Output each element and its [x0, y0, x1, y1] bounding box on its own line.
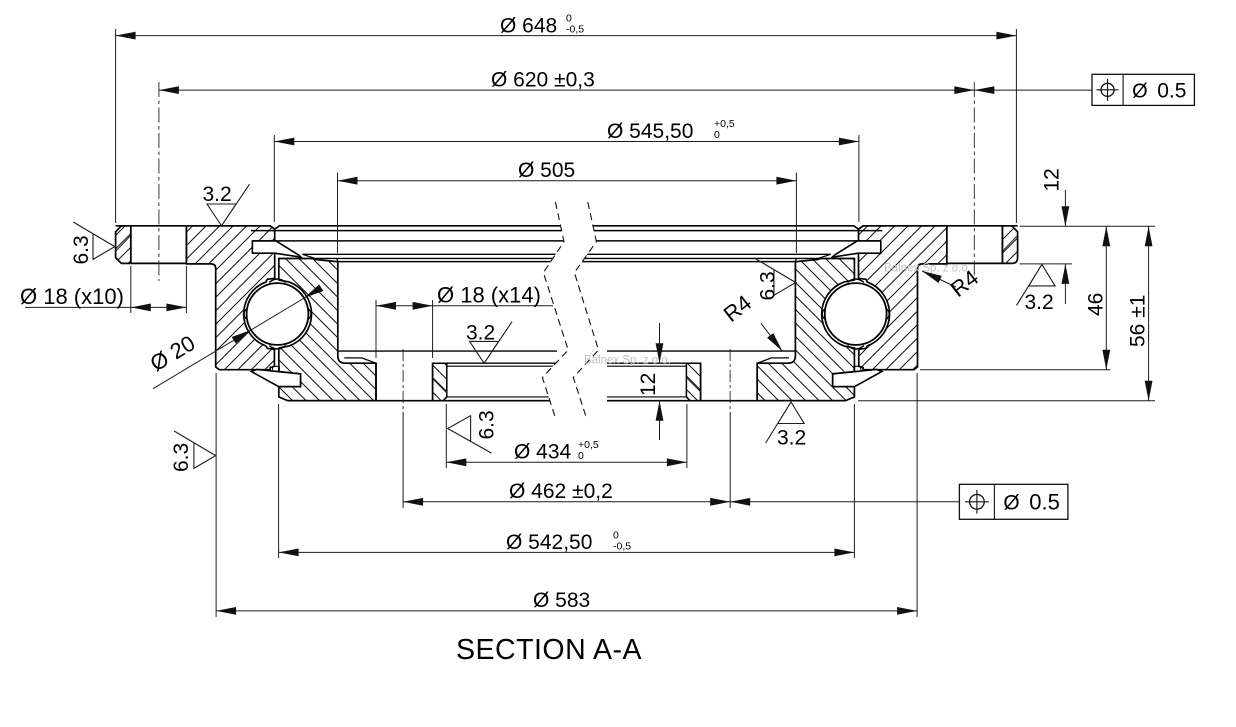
- top strip line 5: [315, 257, 818, 259]
- strip step left: [302, 254, 338, 261]
- break corridor (white-out): [542, 202, 598, 420]
- inner ring, left section (cut, hatched): [279, 259, 376, 401]
- outer ring, left section (cut, hatched): [186, 226, 274, 370]
- flange rim chamfer diagonal (right): [1002, 235, 1017, 251]
- recess background line 366 (right): [607, 365, 686, 367]
- extension line Ø505 left: [337, 173, 339, 254]
- recess face line (left): [344, 358, 376, 363]
- svg-text:3.2: 3.2: [203, 183, 232, 206]
- svg-text:6.3: 6.3: [476, 410, 499, 439]
- arrowheads Ø20: [232, 330, 251, 344]
- svg-text:Ø 434: Ø 434: [514, 441, 572, 464]
- svg-text:Ø 542,50: Ø 542,50: [506, 531, 592, 554]
- extension line Ø648 right / flange edge: [1015, 29, 1017, 223]
- leader to position frame (top): [974, 89, 1092, 91]
- dimension line 12 (top): [1064, 190, 1066, 226]
- extension line Ø434 left: [445, 404, 447, 468]
- arrowheads Ø505: [338, 177, 358, 185]
- svg-text:3.2: 3.2: [466, 321, 495, 344]
- dimension line 46: [1105, 226, 1107, 369]
- dimension line Ø505: [338, 180, 797, 182]
- svg-text:Ø 462 ±0,2: Ø 462 ±0,2: [509, 480, 613, 503]
- svg-text:Ø 545,50: Ø 545,50: [607, 120, 693, 143]
- inner ring bolt hole walls (left): [376, 363, 433, 401]
- surface finish 3.2 (outer ring top face): [207, 184, 250, 226]
- svg-text:6.3: 6.3: [757, 271, 780, 300]
- extension line outer ring bottom right: [920, 369, 1111, 371]
- dimension line Ø583: [216, 610, 917, 612]
- position tolerance frame (top right): [1092, 74, 1194, 105]
- surface finish 3.2 (inner ring bottom, right): [766, 402, 805, 443]
- svg-text:Ø 620 ±0,3: Ø 620 ±0,3: [491, 68, 595, 91]
- svg-text:0: 0: [578, 450, 584, 462]
- recess background line 366 (left): [447, 365, 557, 367]
- svg-text:3.2: 3.2: [1025, 291, 1054, 314]
- svg-text:Ø: Ø: [1003, 492, 1019, 515]
- dimension line 56: [1148, 226, 1150, 400]
- extension line Ø542,5 left: [278, 404, 280, 558]
- extension line Ø434 right: [686, 404, 688, 468]
- svg-text:0: 0: [714, 129, 720, 141]
- inner ring underside background line (right): [607, 350, 795, 352]
- dimension line 12 (bottom): [659, 323, 661, 363]
- extension line Ø542,5 right: [853, 404, 855, 558]
- arrowheads 56: [1145, 226, 1153, 246]
- top strip line 3: [252, 240, 880, 242]
- raceway ear marks (right ball): [822, 309, 889, 320]
- bottom seal lip detail (right): [854, 366, 861, 371]
- recess background line 363 (right): [607, 362, 686, 364]
- leader R4 (inner ring fillet, right): [761, 323, 783, 351]
- dimension line Ø18x10: [25, 306, 186, 308]
- recess background line 363 (left): [447, 362, 557, 364]
- extension line Ø462 left: [402, 412, 404, 508]
- bottom seal wiper (right): [833, 369, 882, 386]
- recess background line 397 (left): [447, 396, 557, 398]
- svg-text:SECTION A-A: SECTION A-A: [456, 634, 642, 666]
- arrowheads Ø18x14: [376, 302, 396, 310]
- arrowheads 46: [1102, 226, 1110, 246]
- break line (left zigzag, dashed): [542, 202, 568, 420]
- arrowheads Ø542,50: [279, 549, 299, 557]
- position tolerance frame (bottom right): [959, 484, 1068, 519]
- svg-text:-0,5: -0,5: [613, 540, 631, 552]
- outer ring, right section (cut, hatched): [859, 226, 947, 370]
- bottom seal wiper (left): [251, 369, 300, 386]
- extension line Ø505 right: [795, 173, 797, 254]
- ball, left section: [247, 283, 309, 345]
- top strip line 6 (inner ring top face): [337, 261, 797, 263]
- extension line flange bottom right: [1020, 263, 1072, 265]
- flange rim chamfer diagonal (left): [116, 235, 131, 251]
- dimension line Ø434: [446, 461, 687, 463]
- inner ring bolt hole walls (right): [701, 363, 758, 401]
- flange rim sliver right of bolt hole (right): [1002, 226, 1017, 264]
- svg-text:3.2: 3.2: [777, 427, 806, 450]
- svg-text:6.3: 6.3: [170, 443, 193, 472]
- extension line Ø583 right: [916, 373, 918, 617]
- svg-text:Ø 583: Ø 583: [533, 589, 590, 612]
- recess face line (right): [757, 358, 789, 363]
- break line (right zigzag, dashed): [573, 202, 598, 420]
- ball top contact cap (right): [848, 279, 864, 282]
- inner ring, right section (cut, hatched): [757, 259, 854, 401]
- svg-text:Balnex Sp. z o.o.: Balnex Sp. z o.o.: [584, 355, 671, 367]
- arrowheads Ø462: [403, 498, 423, 506]
- top strip line 4: [302, 253, 830, 255]
- extension line Ø462 right: [729, 412, 731, 508]
- svg-text:Ø 18 (x14): Ø 18 (x14): [437, 283, 541, 308]
- arrowheads Ø583: [216, 607, 236, 615]
- recess background line 397 (right): [607, 396, 686, 398]
- top seal wiper (left): [252, 241, 301, 257]
- arrowheads Ø434: [446, 458, 466, 466]
- ball bottom contact cap (right): [848, 346, 864, 349]
- flange underside line across hole (right): [947, 262, 1003, 264]
- dimension line Ø542,50: [279, 551, 855, 553]
- dimension line Ø18x14: [376, 305, 553, 307]
- bottom seal lip detail (left): [273, 366, 280, 371]
- svg-text:Ø 505: Ø 505: [518, 159, 575, 182]
- leader line Ø20: [153, 288, 321, 389]
- dimension line Ø462: [403, 501, 730, 503]
- top seal wiper (right): [832, 241, 881, 257]
- inner hole chamfer diag (right): [686, 378, 700, 392]
- extension line Ø545,5 right: [858, 135, 860, 222]
- dimension line Ø620: [159, 89, 974, 91]
- arrowheads Ø545,50: [274, 138, 294, 146]
- surface finish 3.2 (inner ring recess face): [470, 322, 512, 364]
- extension line Ø583 left: [215, 373, 217, 617]
- inner ring bottom face (right): [607, 400, 846, 402]
- arrowheads 12 (bottom): [656, 343, 664, 363]
- arrowheads Ø648: [116, 32, 136, 40]
- svg-text:Ø: Ø: [1132, 80, 1148, 102]
- svg-text:46: 46: [1085, 293, 1108, 316]
- raceway ear marks (left ball): [244, 309, 311, 320]
- svg-text:Ø 18 (x10): Ø 18 (x10): [20, 284, 124, 309]
- inner ring bolt-hole sliver (right): [686, 363, 700, 401]
- svg-text:Ø 648: Ø 648: [500, 14, 557, 37]
- inner ring bolt hole centerline (right): [729, 349, 731, 411]
- surface finish 6.3 (outer ring OD, lower left): [174, 431, 216, 468]
- flange rim sliver left of bolt hole (left): [116, 226, 131, 264]
- dimension line Ø545,50: [274, 141, 859, 143]
- inner ring bolt hole centerline (left): [402, 349, 404, 411]
- flange underside line across hole (left): [131, 262, 187, 264]
- top face line with seal groove notches: [116, 226, 1018, 229]
- svg-text:6.3: 6.3: [70, 235, 93, 264]
- arrowheads Ø620: [159, 86, 179, 94]
- surface finish 6.3 (Ø434 recess wall): [448, 416, 492, 453]
- flange bolt hole walls (right): [947, 226, 1003, 264]
- arrowheads Ø18x10: [131, 304, 151, 312]
- ball, right section: [825, 283, 887, 345]
- extension line Ø545,5 left: [273, 135, 275, 222]
- flange bolt hole centerline (right): [973, 82, 975, 281]
- top strip line 2: [251, 230, 882, 232]
- ball top contact cap (left): [269, 279, 285, 282]
- extension line inner ring bottom right: [858, 400, 1155, 402]
- ball bottom contact cap (left): [269, 346, 285, 349]
- surface finish 3.2 (flange underside, right): [1017, 264, 1056, 305]
- svg-text:0.5: 0.5: [1029, 490, 1060, 515]
- svg-text:12: 12: [1041, 168, 1064, 191]
- leader R4 (flange fillet, right): [922, 271, 956, 287]
- dimension line Ø648: [116, 35, 1017, 37]
- inner ring bottom face (left): [288, 400, 557, 402]
- svg-text:12: 12: [637, 373, 660, 396]
- flange bolt hole walls (left): [131, 226, 187, 264]
- inner ring bolt-hole sliver (left): [433, 363, 447, 401]
- extension lines Ø18x14 holes: [375, 300, 377, 358]
- svg-text:-0,5: -0,5: [566, 24, 584, 36]
- extension line flange top right: [1020, 225, 1155, 227]
- surface finish 6.3 (inner ring bore, right): [754, 258, 796, 295]
- inner hole chamfer diag (left): [433, 378, 447, 392]
- flange bolt hole centerline (left): [158, 82, 160, 281]
- leader to position frame (bottom): [730, 501, 959, 503]
- inner ring underside background line (left): [339, 350, 557, 352]
- surface finish 6.3 (flange outer rim, left): [73, 222, 115, 259]
- svg-text:0.5: 0.5: [1157, 79, 1186, 102]
- strip step right: [795, 254, 831, 261]
- extension lines Ø18x10 holes: [130, 266, 132, 313]
- extension line Ø648 left: [115, 29, 117, 223]
- svg-text:56 ±1: 56 ±1: [1127, 295, 1150, 347]
- arrowheads 12 (top): [1062, 206, 1070, 226]
